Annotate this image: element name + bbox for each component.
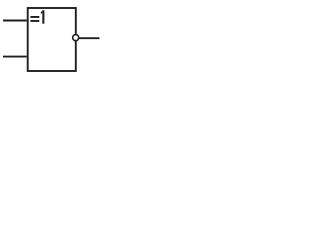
wire input B <box>3 56 27 58</box>
label =1 : digit one flag <box>40 10 42 13</box>
label =1 : equals bottom bar <box>30 20 39 22</box>
wire input A <box>3 20 27 22</box>
XNOR gate U1 (IEC "=1" block with output inversion bubble) <box>0 0 111 91</box>
label =1 : equals top bar <box>30 16 39 18</box>
label =1 : digit one stem <box>42 10 44 23</box>
wire output <box>79 37 99 39</box>
gate body U1 <box>28 8 76 71</box>
inversion bubble <box>73 35 79 41</box>
